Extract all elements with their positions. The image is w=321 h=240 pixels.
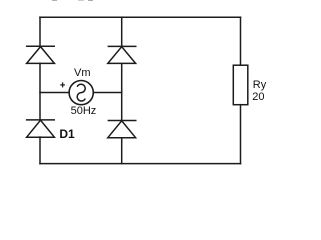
label Ry <box>253 80 266 91</box>
wire middle branch lower <box>121 138 123 164</box>
wire middle branch middle <box>121 64 123 121</box>
ac source sine glyph <box>77 84 85 101</box>
label 50Hz <box>71 106 97 117</box>
wire left branch upper <box>39 17 41 46</box>
resistor Ry box <box>233 65 248 105</box>
ac source Vm circle <box>69 81 93 105</box>
diode top-middle cathode bar <box>108 45 137 47</box>
wire right branch upper <box>240 17 242 65</box>
wire right branch lower <box>240 105 242 164</box>
wire top rail <box>40 16 241 18</box>
diode top-middle triangle <box>108 47 136 64</box>
diode D1 triangle <box>27 120 55 137</box>
wire left branch middle <box>39 63 41 120</box>
diode top-left cathode bar <box>26 45 55 47</box>
wire source right lead <box>94 92 122 94</box>
label Vm <box>74 68 91 79</box>
cropped text fragment 1 <box>52 0 57 1</box>
wire left branch lower <box>39 137 41 164</box>
label + polarity <box>60 82 65 87</box>
wire source left lead <box>40 92 69 94</box>
diode top-left triangle <box>27 47 55 64</box>
cropped text fragment 2 <box>78 0 84 1</box>
diode bottom-middle triangle <box>108 121 136 138</box>
label D1 <box>59 128 74 140</box>
diode bottom-middle cathode bar <box>108 120 137 122</box>
diode D1 cathode bar <box>26 119 55 121</box>
cropped text fragment 3 <box>88 0 93 1</box>
label 20 <box>252 92 264 103</box>
wire bottom rail <box>40 163 241 165</box>
wire middle branch upper <box>121 17 123 46</box>
